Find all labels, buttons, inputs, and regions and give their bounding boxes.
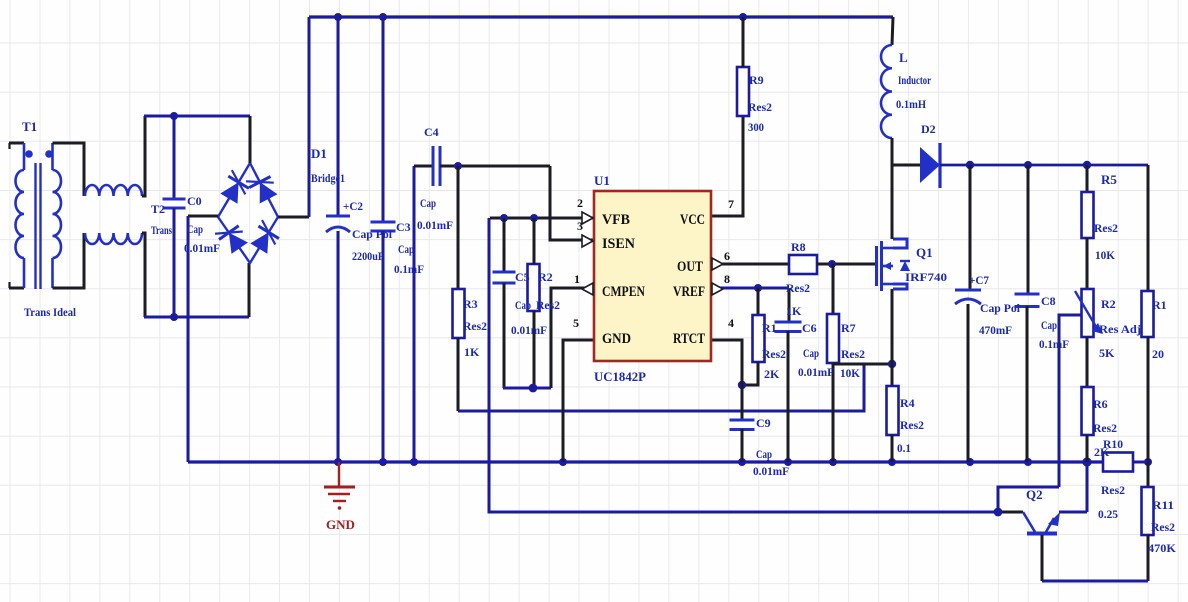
- svg-text:D2: D2: [921, 122, 936, 136]
- svg-text:2200uF: 2200uF: [352, 249, 384, 263]
- svg-text:Cap: Cap: [803, 346, 819, 360]
- svg-text:6: 6: [724, 249, 730, 263]
- svg-text:470K: 470K: [1148, 541, 1177, 555]
- svg-text:R2: R2: [1101, 297, 1116, 311]
- svg-text:Cap: Cap: [420, 196, 436, 210]
- svg-text:CMPEN: CMPEN: [602, 284, 645, 300]
- svg-text:C5: C5: [515, 270, 530, 284]
- svg-text:C9: C9: [756, 416, 771, 430]
- svg-text:0.1mF: 0.1mF: [1039, 337, 1069, 351]
- svg-text:20: 20: [1152, 347, 1164, 361]
- svg-text:4: 4: [728, 316, 734, 330]
- svg-text:0.01mF: 0.01mF: [753, 464, 789, 478]
- svg-text:0.1mH: 0.1mH: [896, 97, 927, 111]
- svg-text:3: 3: [577, 219, 583, 233]
- svg-text:Cap: Cap: [1041, 318, 1057, 332]
- svg-text:0.01mF: 0.01mF: [417, 218, 453, 232]
- svg-text:C3: C3: [396, 220, 411, 234]
- svg-text:7: 7: [728, 197, 734, 211]
- svg-text:Res2: Res2: [536, 298, 560, 312]
- svg-text:R1: R1: [762, 321, 777, 335]
- svg-text:Trans: Trans: [151, 223, 172, 237]
- svg-text:Bridge1: Bridge1: [311, 171, 345, 185]
- svg-text:UC1842P: UC1842P: [594, 369, 646, 384]
- svg-text:R6: R6: [1093, 397, 1108, 411]
- svg-text:0.01mF: 0.01mF: [798, 365, 834, 379]
- svg-text:T2: T2: [151, 202, 165, 216]
- svg-text:470mF: 470mF: [979, 323, 1012, 337]
- svg-text:Cap Pol: Cap Pol: [352, 227, 393, 241]
- svg-text:R10: R10: [1103, 437, 1123, 451]
- svg-text:OUT: OUT: [677, 259, 703, 275]
- svg-text:Q1: Q1: [916, 245, 933, 260]
- svg-text:1K: 1K: [464, 345, 480, 359]
- svg-text:VFB: VFB: [602, 212, 630, 228]
- svg-text:10K: 10K: [840, 366, 861, 380]
- svg-text:C8: C8: [1041, 294, 1056, 308]
- svg-text:R2: R2: [538, 270, 553, 284]
- svg-text:R4: R4: [900, 396, 915, 410]
- svg-text:Res2: Res2: [841, 347, 865, 361]
- svg-text:Res2: Res2: [786, 281, 810, 295]
- svg-text:2: 2: [577, 196, 583, 210]
- svg-text:D1: D1: [311, 146, 327, 161]
- svg-text:R1: R1: [1152, 298, 1167, 312]
- svg-text:Inductor: Inductor: [898, 73, 931, 87]
- svg-text:0.01mF: 0.01mF: [184, 241, 220, 255]
- svg-text:+C2: +C2: [343, 199, 363, 213]
- svg-text:5K: 5K: [1099, 346, 1115, 360]
- svg-text:C0: C0: [187, 194, 202, 208]
- svg-text:R5: R5: [1101, 172, 1117, 187]
- svg-text:Res Adj: Res Adj: [1099, 322, 1141, 336]
- svg-text:Cap: Cap: [515, 298, 531, 312]
- svg-text:RTCT: RTCT: [673, 331, 705, 347]
- svg-text:GND: GND: [326, 517, 355, 532]
- svg-text:300: 300: [748, 120, 764, 134]
- svg-text:VREF: VREF: [673, 284, 705, 300]
- svg-text:C4: C4: [424, 125, 439, 139]
- svg-text:+C7: +C7: [969, 273, 989, 287]
- svg-text:Res2: Res2: [1094, 221, 1118, 235]
- svg-text:Res2: Res2: [463, 319, 487, 333]
- svg-text:Res2: Res2: [900, 418, 924, 432]
- svg-text:U1: U1: [594, 173, 610, 188]
- svg-text:Res2: Res2: [1151, 520, 1175, 534]
- svg-text:Trans Ideal: Trans Ideal: [24, 305, 77, 319]
- svg-text:IRF740: IRF740: [905, 270, 947, 284]
- svg-text:ISEN: ISEN: [602, 236, 635, 252]
- svg-text:Res2: Res2: [748, 100, 772, 114]
- svg-text:Cap: Cap: [756, 447, 772, 461]
- svg-text:Cap: Cap: [398, 242, 414, 256]
- svg-text:T1: T1: [22, 119, 37, 134]
- svg-text:Q2: Q2: [1026, 487, 1043, 502]
- svg-text:VCC: VCC: [680, 212, 705, 228]
- svg-text:10K: 10K: [1095, 248, 1116, 262]
- svg-text:Cap: Cap: [187, 222, 203, 236]
- svg-text:2K: 2K: [764, 367, 780, 381]
- svg-text:1: 1: [574, 272, 580, 286]
- svg-text:R9: R9: [749, 73, 764, 87]
- svg-text:R11: R11: [1152, 498, 1174, 512]
- svg-text:R8: R8: [791, 240, 806, 254]
- svg-text:0.1: 0.1: [897, 441, 911, 455]
- svg-text:C6: C6: [802, 321, 817, 335]
- svg-text:0.01mF: 0.01mF: [511, 323, 547, 337]
- svg-text:5: 5: [573, 316, 579, 330]
- svg-text:1K: 1K: [786, 304, 802, 318]
- svg-text:Res2: Res2: [762, 347, 786, 361]
- svg-text:GND: GND: [602, 331, 631, 347]
- svg-text:R7: R7: [841, 321, 856, 335]
- svg-text:0.25: 0.25: [1098, 507, 1118, 521]
- svg-text:8: 8: [724, 272, 730, 286]
- svg-text:Cap Pol: Cap Pol: [980, 301, 1021, 315]
- svg-text:L: L: [899, 50, 908, 65]
- svg-text:Res2: Res2: [1093, 421, 1117, 435]
- svg-text:Res2: Res2: [1101, 483, 1125, 497]
- svg-text:R3: R3: [463, 297, 478, 311]
- svg-text:0.1mF: 0.1mF: [394, 262, 424, 276]
